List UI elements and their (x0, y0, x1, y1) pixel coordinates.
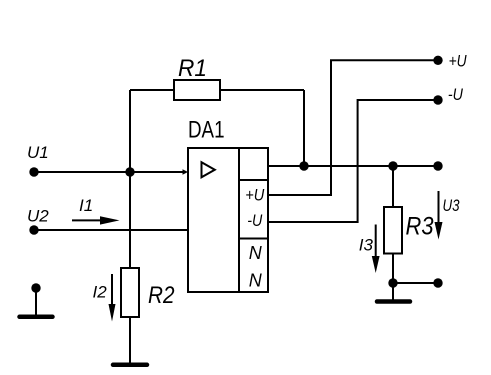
svg-text:DA1: DA1 (188, 117, 225, 144)
svg-text:R1: R1 (178, 55, 207, 82)
svg-text:+U: +U (245, 186, 265, 205)
svg-text:I3: I3 (359, 235, 374, 254)
svg-text:I2: I2 (93, 282, 108, 301)
svg-text:R2: R2 (148, 282, 175, 309)
svg-text:U1: U1 (27, 143, 49, 162)
svg-text:-U: -U (247, 211, 263, 230)
svg-text:N: N (249, 270, 263, 290)
svg-text:U2: U2 (27, 206, 49, 225)
svg-text:+U: +U (449, 52, 468, 71)
svg-text:U3: U3 (443, 196, 460, 215)
svg-text:-U: -U (448, 85, 464, 104)
svg-text:N: N (249, 243, 263, 263)
svg-text:R3: R3 (406, 213, 434, 241)
svg-text:I1: I1 (79, 196, 93, 215)
